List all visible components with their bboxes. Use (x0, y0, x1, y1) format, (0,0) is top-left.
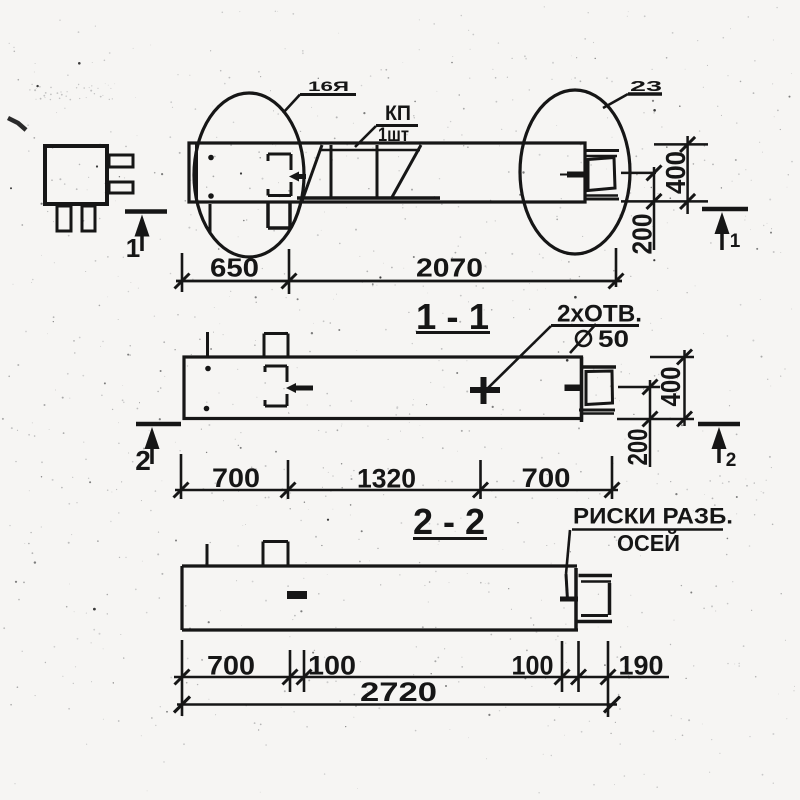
svg-text:2070: 2070 (416, 253, 483, 283)
svg-text:1 - 1: 1 - 1 (416, 296, 489, 337)
svg-text:16Я: 16Я (308, 78, 349, 94)
svg-text:400: 400 (660, 151, 691, 194)
svg-text:700: 700 (522, 463, 571, 493)
svg-text:ОСЕЙ: ОСЕЙ (617, 529, 680, 556)
svg-text:100: 100 (308, 651, 356, 681)
svg-text:РИСКИ РАЗБ.: РИСКИ РАЗБ. (573, 504, 733, 529)
svg-text:190: 190 (619, 651, 664, 681)
svg-text:1320: 1320 (357, 464, 416, 494)
svg-text:1шт: 1шт (378, 125, 409, 146)
svg-text:100: 100 (512, 651, 554, 681)
svg-text:700: 700 (212, 463, 260, 493)
svg-text:2720: 2720 (360, 677, 437, 707)
svg-text:2хОТВ.: 2хОТВ. (557, 301, 642, 328)
svg-text:200: 200 (622, 429, 653, 466)
svg-text:2: 2 (135, 445, 151, 476)
svg-text:2: 2 (726, 450, 737, 471)
svg-text:700: 700 (207, 651, 255, 681)
svg-text:650: 650 (210, 253, 259, 283)
svg-text:1: 1 (126, 233, 140, 263)
svg-text:1: 1 (730, 231, 741, 252)
svg-text:2 - 2: 2 - 2 (413, 501, 485, 542)
svg-text:400: 400 (655, 367, 686, 407)
svg-text:КП: КП (385, 102, 411, 125)
svg-text:200: 200 (627, 214, 658, 255)
svg-text:50: 50 (598, 326, 629, 353)
